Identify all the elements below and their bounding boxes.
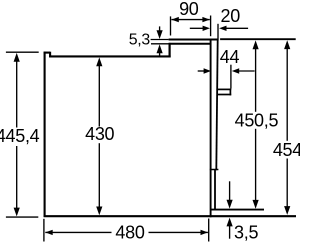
arrowhead 90 left <box>171 17 178 22</box>
arrowhead 445,4 up <box>14 53 20 62</box>
arrowhead 44 right (points left) <box>232 68 239 73</box>
dim 20 right arrow tail <box>225 27 248 29</box>
svg-text:44: 44 <box>220 47 240 67</box>
arrowhead 445,4 down <box>14 208 20 217</box>
dim 445,4 bottom extension line <box>6 216 38 218</box>
dim 480 dimension line left part <box>45 231 111 233</box>
dim 44 right arrow tail <box>238 70 254 72</box>
niche top line <box>220 38 296 40</box>
body top edge (rear section) <box>49 55 171 57</box>
niche bottom line <box>212 209 265 211</box>
dim 450,5 vertical line upper <box>255 47 257 112</box>
arrowhead 3,5 up <box>227 218 233 227</box>
dim 90/20 shared extension line <box>210 16 212 37</box>
svg-text:430: 430 <box>85 124 114 144</box>
lid top extension (5,3 upper reference) <box>151 39 169 41</box>
dim 450,5 vertical line lower <box>255 129 257 202</box>
facade front frame right line (upper) <box>216 39 217 171</box>
svg-text:445,4: 445,4 <box>0 126 40 146</box>
dim 480 left extension line <box>43 219 45 242</box>
dim 3,5 up arrow tail <box>229 224 231 239</box>
dim 44 extension line <box>230 65 232 89</box>
arrowhead 90 right <box>202 17 209 22</box>
door front line (lower) <box>214 170 216 210</box>
svg-text:5,3: 5,3 <box>129 32 151 49</box>
dim 90 dimension line <box>171 19 209 21</box>
arrowhead 450,5 up <box>253 40 259 49</box>
arrowhead 480 right <box>201 230 208 235</box>
svg-text:90: 90 <box>179 0 199 19</box>
front top step <box>169 43 171 58</box>
dim 445,4 top extension line <box>6 51 39 53</box>
svg-text:3,5: 3,5 <box>234 223 258 243</box>
svg-text:450,5: 450,5 <box>235 110 279 130</box>
dim 44 left arrow tail <box>198 70 205 72</box>
rear standoff bump top <box>44 52 51 54</box>
arrowhead 44 left (points right) <box>204 68 211 73</box>
facade front frame left line <box>210 39 212 218</box>
dim 3,5 down arrow tail <box>229 181 231 200</box>
arrowhead 454 down <box>284 206 290 215</box>
dim 454 vertical line upper <box>286 47 288 141</box>
dim 5,3 down arrow tail <box>159 26 161 33</box>
svg-text:480: 480 <box>115 223 144 243</box>
lid underside edge <box>169 43 212 45</box>
dim 20 right extension line <box>217 24 219 39</box>
rear standoff bump right step <box>49 52 51 58</box>
facade seam jog <box>210 169 219 171</box>
lid underside extension (5,3 lower reference) <box>151 43 169 45</box>
dim 430 vertical line lower <box>98 143 100 209</box>
arrowhead 430 down <box>96 207 102 216</box>
arrowhead 450,5 down <box>253 200 259 209</box>
arrowhead 20 right (points left) <box>219 26 226 31</box>
arrowhead 5,3 down <box>157 30 163 39</box>
arrowhead 3,5 down <box>227 200 233 209</box>
mounting tab bottom <box>218 94 231 96</box>
mounting tab right edge <box>229 89 231 96</box>
arrowhead 5,3 up <box>157 44 163 53</box>
dim 480 right extension line <box>208 219 210 242</box>
dim 430 vertical line upper <box>98 64 100 127</box>
dim 480 dimension line right part <box>149 231 208 233</box>
mounting tab top <box>218 88 231 90</box>
body bottom line <box>44 215 296 217</box>
arrowhead 430 up <box>96 57 102 66</box>
dim 90 left extension line <box>170 16 172 35</box>
appliance body left edge <box>44 52 46 217</box>
arrowhead 454 up <box>284 40 290 49</box>
arrowhead 20 left (points right) <box>203 26 210 31</box>
arrowhead 480 left <box>45 230 52 235</box>
lid top / facade top cap <box>169 39 219 41</box>
dim 445,4 vertical line upper <box>16 60 18 128</box>
dim 445,4 vertical line lower <box>16 146 18 211</box>
dim 20 left arrow tail <box>190 27 204 29</box>
svg-text:454: 454 <box>273 140 300 160</box>
dim 454 vertical line lower <box>286 159 288 209</box>
svg-text:20: 20 <box>220 6 240 26</box>
dim 5,3 up arrow tail <box>159 50 161 56</box>
